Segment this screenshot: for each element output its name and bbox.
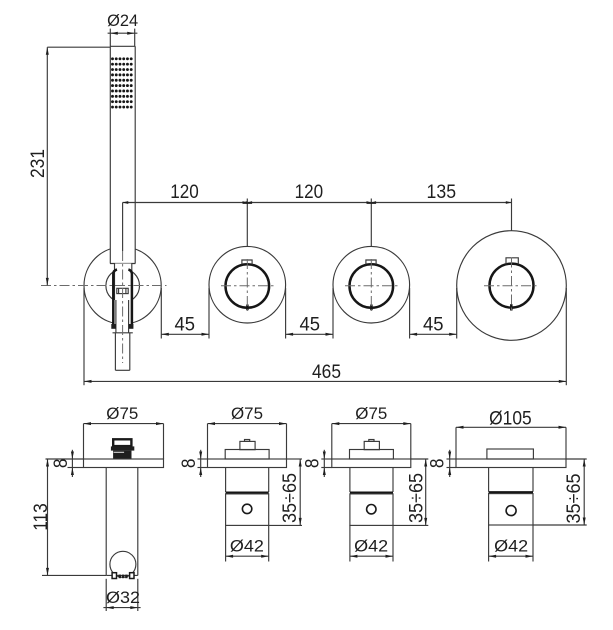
rosette R1 outer circle (hand shower holder, front view) xyxy=(84,247,161,324)
svg-text:35÷65: 35÷65 xyxy=(405,473,427,523)
valve handle circle R3 (bold) xyxy=(350,264,394,308)
U1 dimension 113 xyxy=(30,459,106,575)
handle bottom notch R2 xyxy=(246,305,249,311)
svg-text:Ø105: Ø105 xyxy=(489,407,532,429)
svg-text:8: 8 xyxy=(302,458,324,468)
U3 dimension 8 xyxy=(302,450,332,477)
hand shower handle through holder xyxy=(115,264,132,333)
svg-text:Ø24: Ø24 xyxy=(107,11,138,30)
valve rosette R3 outer circle xyxy=(333,246,410,323)
U1 dimension Ø32 xyxy=(103,579,140,611)
U1 holder hook band (black) xyxy=(111,446,134,450)
U1 hose connection circle xyxy=(110,551,136,577)
U3 handle base block xyxy=(350,450,394,460)
U3 wall plate (side) xyxy=(332,459,411,468)
hand shower spray dots xyxy=(111,57,133,108)
svg-text:120: 120 xyxy=(170,181,199,203)
centerlines R4 xyxy=(484,285,539,287)
U3 handle knob xyxy=(364,441,379,449)
svg-text:35÷65: 35÷65 xyxy=(279,473,301,523)
svg-text:45: 45 xyxy=(423,314,444,336)
hand shower joint line xyxy=(110,263,135,265)
U3 handle tip tab xyxy=(369,440,374,442)
centerlines R2 xyxy=(221,285,274,287)
U1 hose nut serrations xyxy=(112,573,134,579)
svg-text:Ø75: Ø75 xyxy=(231,404,263,423)
U2 valve body lower xyxy=(226,494,269,526)
U3 screw circle xyxy=(367,505,376,514)
U3 valve body lower xyxy=(350,494,393,526)
U4 body upper xyxy=(489,468,533,492)
U2 dimension 35÷65 xyxy=(269,459,302,525)
svg-text:8: 8 xyxy=(50,458,72,468)
svg-text:Ø75: Ø75 xyxy=(106,404,138,423)
holder ball circle xyxy=(106,269,140,303)
U2 handle base block xyxy=(225,450,269,460)
U3 valve body upper xyxy=(350,468,393,493)
dimension 231 xyxy=(27,47,110,285)
U4 thermostat handle block xyxy=(487,449,534,459)
svg-text:Ø42: Ø42 xyxy=(494,537,528,556)
valve rosette R2 outer circle xyxy=(209,246,286,323)
svg-text:Ø42: Ø42 xyxy=(230,537,264,556)
U2 dimension Ø42 xyxy=(226,525,269,561)
dimension 45 c xyxy=(410,288,457,339)
svg-text:Ø75: Ø75 xyxy=(355,404,387,423)
holder bracket hooks (bold) xyxy=(113,270,132,328)
U3 dimension Ø75 xyxy=(332,404,411,459)
valve handle circle U2 (bold) xyxy=(226,264,270,308)
svg-text:45: 45 xyxy=(300,314,321,336)
thermostat handle circle R4 (bold) xyxy=(490,264,534,308)
dimension 45 b xyxy=(286,288,333,339)
handle index tab R3 xyxy=(366,260,376,265)
U2 handle tip tab xyxy=(245,440,250,442)
svg-text:45: 45 xyxy=(175,314,196,336)
U1 dimension Ø75 xyxy=(84,404,164,459)
U4 wall plate (side) xyxy=(456,459,566,468)
holder clamp rectangle xyxy=(117,288,128,293)
svg-text:35÷65: 35÷65 xyxy=(563,473,585,523)
svg-text:8: 8 xyxy=(427,458,449,468)
dimension 45 a xyxy=(161,288,209,339)
U4 screw circle xyxy=(506,506,516,516)
svg-text:120: 120 xyxy=(295,181,324,203)
dimension chain 120 / 120 / 135 xyxy=(123,181,512,251)
U4 body divider (bold) xyxy=(489,491,533,494)
hand shower tube body xyxy=(110,46,135,263)
centerline rosette R1 horizontal xyxy=(41,285,167,287)
U2 dimension 8 xyxy=(178,450,208,477)
centerlines R3 xyxy=(345,285,398,287)
handle bottom notch R4 xyxy=(510,304,513,310)
U1 dimension 8 xyxy=(46,450,84,477)
handle index tab R2 xyxy=(242,260,252,265)
svg-text:Ø42: Ø42 xyxy=(354,537,388,556)
U2 wall plate (side) xyxy=(208,459,287,468)
dimension Ø24 xyxy=(107,11,138,47)
U4 dimension 35÷65 xyxy=(533,459,587,525)
svg-text:231: 231 xyxy=(27,149,49,178)
U1 wall plate (side) xyxy=(84,459,164,468)
U2 screw circle xyxy=(242,504,251,513)
U3 body divider (bold) xyxy=(350,491,393,494)
U4 dimension 8 xyxy=(427,450,456,477)
svg-text:113: 113 xyxy=(30,503,52,531)
handle bottom notch R3 xyxy=(370,305,373,311)
U2 handle knob xyxy=(240,441,255,449)
U2 valve body upper xyxy=(226,468,269,493)
U4 dimension Ø105 xyxy=(456,407,566,459)
hand shower lower hose stub xyxy=(113,333,133,371)
U1 holder hook base (black) xyxy=(113,451,131,459)
svg-text:Ø32: Ø32 xyxy=(106,588,140,607)
U2 dimension Ø75 xyxy=(208,404,287,459)
svg-text:8: 8 xyxy=(178,458,200,468)
centerline hand shower vertical xyxy=(122,251,124,363)
svg-text:465: 465 xyxy=(312,361,341,383)
dimension 465 xyxy=(84,288,566,385)
U4 dimension Ø42 xyxy=(489,525,533,562)
U2 body divider (bold) xyxy=(226,491,269,494)
thermostat rosette R4 outer circle xyxy=(457,231,567,341)
U4 body lower xyxy=(489,494,533,525)
U3 dimension 35÷65 xyxy=(393,459,428,525)
holder feet xyxy=(111,324,133,329)
U1 drop tube xyxy=(106,468,138,576)
U3 dimension Ø42 xyxy=(350,525,393,561)
handle index tab R4 xyxy=(506,258,518,265)
U1 holder hook cap xyxy=(113,439,131,446)
svg-text:135: 135 xyxy=(427,181,457,203)
